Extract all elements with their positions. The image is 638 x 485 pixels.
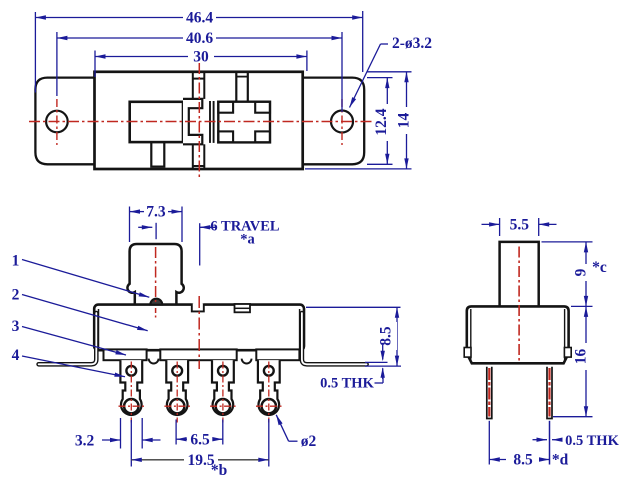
top view: carrier corner pocket bottom-right xyxy=(255,131,270,142)
dimension 19.5 extension lines xyxy=(130,420,132,467)
svg-text:14: 14 xyxy=(396,113,413,129)
svg-text:2-ø3.2: 2-ø3.2 xyxy=(392,35,432,52)
dimension 30 line with arrows xyxy=(95,56,188,58)
side view: right leg centerline xyxy=(548,368,550,417)
dimension 8.5 line with arrows side view xyxy=(489,459,506,461)
dimension 12.4 text xyxy=(379,104,393,141)
label 2-ø3.2 leader line xyxy=(381,43,389,45)
top view: slider stem xyxy=(151,142,164,167)
side view: body edge notch right xyxy=(564,348,571,358)
dimension 7.3 extension lines xyxy=(129,207,131,243)
dimension 9 text xyxy=(579,264,593,281)
bracket thickness extension line xyxy=(365,361,388,363)
front view: ledge cup notch right xyxy=(242,359,252,364)
svg-text:0.5 THK: 0.5 THK xyxy=(320,376,374,392)
dimension 8.5 text front view xyxy=(383,322,397,350)
dimension 9/16 shared extension line xyxy=(571,305,593,307)
svg-text:*c: *c xyxy=(592,259,607,276)
top view: right mounting hole xyxy=(331,111,353,133)
top view: plate slot right line xyxy=(203,72,205,99)
front view: right mounting bracket arm xyxy=(302,313,367,364)
top view: contact carrier body xyxy=(218,102,270,143)
front view: body inner wall right xyxy=(299,309,301,349)
front view: switch body outline xyxy=(94,305,304,351)
svg-text:7.3: 7.3 xyxy=(146,203,166,220)
svg-text:3.2: 3.2 xyxy=(75,433,95,450)
side view: left terminal leg xyxy=(487,367,492,419)
top view: carrier top arm tab line xyxy=(236,76,248,78)
dimension 14 text xyxy=(401,107,415,134)
front view: knob base centerline below dome xyxy=(155,308,157,320)
top view: carrier corner pocket top-left xyxy=(218,102,233,113)
top view: carrier left double wall xyxy=(209,101,211,143)
front view: bottom ledge right segment xyxy=(256,349,299,360)
svg-text:*d: *d xyxy=(552,452,569,469)
dimension 8.5 line with arrows xyxy=(396,307,398,366)
travel annotation leader xyxy=(199,223,201,265)
side view: switch body outline xyxy=(467,306,569,363)
top view: plate slot top end xyxy=(193,78,205,80)
leader 3 line xyxy=(22,327,126,356)
top view: horizontal centerline xyxy=(29,121,374,123)
dimension 3.2 arrows xyxy=(102,439,121,441)
dimension 8.5 extension line top xyxy=(306,306,401,308)
front view: terminal 4 xyxy=(258,360,280,415)
top view: left mounting ear xyxy=(35,78,94,165)
front view: ledge cup notch left xyxy=(149,359,159,364)
front view: top slot opening xyxy=(193,302,202,307)
dimension 19.5 line with arrows xyxy=(131,459,184,461)
dimension 8.5 extension line left side view xyxy=(488,421,490,465)
front view: terminal 3 xyxy=(212,360,234,415)
svg-text:5.5: 5.5 xyxy=(510,217,530,234)
dimension 12.4 line with arrows xyxy=(386,78,388,165)
svg-text:46.4: 46.4 xyxy=(186,10,213,27)
top view: carrier top arm xyxy=(235,72,237,102)
leader 4 line xyxy=(22,356,125,377)
side view: right terminal leg xyxy=(547,367,552,419)
front view: terminal 1 xyxy=(120,360,142,415)
top view: right hole vertical centerline xyxy=(341,99,343,145)
top view: slider clamp bracket xyxy=(183,99,202,144)
top view: left hole vertical centerline xyxy=(56,99,58,145)
dimension 5.5 arrows xyxy=(482,223,500,225)
dimension 16 line with arrows xyxy=(585,306,587,416)
dimension 16 extension line bottom xyxy=(553,416,593,418)
front view: knob base dome xyxy=(150,299,162,305)
side view: body edge notch left xyxy=(464,348,471,358)
dimension 6.5 extension lines xyxy=(175,420,177,445)
svg-text:8.5: 8.5 xyxy=(378,326,395,346)
side view: body inner edge right xyxy=(564,309,566,360)
side view: right leg extension line xyxy=(549,421,551,465)
svg-text:2: 2 xyxy=(12,287,20,304)
label ø2 leader xyxy=(289,440,298,442)
svg-text:*a: *a xyxy=(240,232,255,248)
top view: plate slot left line xyxy=(192,72,194,99)
top view: slider knob xyxy=(130,102,183,142)
front view: bottom ledge left segment xyxy=(104,349,147,360)
svg-text:9: 9 xyxy=(573,268,590,276)
leader 1 line xyxy=(22,260,149,298)
side view: actuator knob xyxy=(500,242,539,307)
top view: plate slot bottom end xyxy=(193,165,205,167)
dimension 40.6 line with arrows xyxy=(57,37,183,39)
dimension 14 extension lines xyxy=(367,71,412,73)
dimension 3.2 extension lines xyxy=(120,418,122,449)
dimension 9 extension line top xyxy=(542,241,593,243)
dimension 46.4 extension lines xyxy=(34,12,36,93)
top view: left mounting hole xyxy=(46,111,68,133)
top view: carrier corner pocket bottom-left xyxy=(218,131,233,142)
svg-text:8.5: 8.5 xyxy=(513,452,533,469)
dimension 40.6 extension lines xyxy=(56,32,58,96)
top view: carrier corner pocket top-right xyxy=(255,102,270,113)
leader 2 line xyxy=(22,295,148,331)
front view: bottom ledge middle segment xyxy=(160,349,236,360)
top view: switch plate main body outline xyxy=(95,72,303,169)
front view: knob centerline xyxy=(155,247,157,302)
dimension 30 extension lines xyxy=(94,51,96,78)
top view: right mounting ear xyxy=(303,78,365,165)
side view: left leg centerline xyxy=(488,368,490,417)
travel arrow at knob centerline xyxy=(138,226,152,228)
thickness arrows front view xyxy=(382,345,384,360)
front view: body inner wall left xyxy=(98,309,100,349)
front view: cover tab on top edge xyxy=(235,304,251,312)
dimension 16 text xyxy=(579,343,593,370)
dimension 9 line with arrows xyxy=(585,242,587,307)
svg-text:4: 4 xyxy=(12,347,20,364)
dimension 7.3 line with arrows xyxy=(130,211,145,213)
front view: terminal 2 xyxy=(166,360,188,415)
dimension 46.4 line with arrows xyxy=(35,17,183,19)
svg-text:1: 1 xyxy=(12,253,20,270)
front view: actuator knob outline xyxy=(127,244,183,304)
svg-text:30: 30 xyxy=(193,49,209,66)
leg thickness arrows side view xyxy=(533,439,548,441)
svg-text:*b: *b xyxy=(211,462,227,479)
front view: travel position centerline xyxy=(198,296,200,369)
dimension 5.5 extension lines xyxy=(499,218,501,236)
dimension 8.5 extension line bottom xyxy=(365,365,401,367)
svg-text:0.5 THK: 0.5 THK xyxy=(565,433,619,449)
side view: body inner edge left xyxy=(470,309,472,360)
svg-text:6.5: 6.5 xyxy=(190,432,210,449)
svg-text:16: 16 xyxy=(573,349,590,365)
top view: slot vertical centerline xyxy=(198,63,200,178)
svg-text:12.4: 12.4 xyxy=(373,108,390,135)
dimension 6.5 line with arrows xyxy=(176,438,187,440)
front view: left mounting bracket arm xyxy=(39,313,97,364)
svg-text:3: 3 xyxy=(12,318,20,335)
dimension 12.4 extension lines xyxy=(367,77,393,79)
side view: knob centerline xyxy=(518,247,520,364)
dimension 14 line with arrows xyxy=(406,72,408,169)
svg-text:40.6: 40.6 xyxy=(186,30,213,47)
svg-text:ø2: ø2 xyxy=(301,433,317,450)
